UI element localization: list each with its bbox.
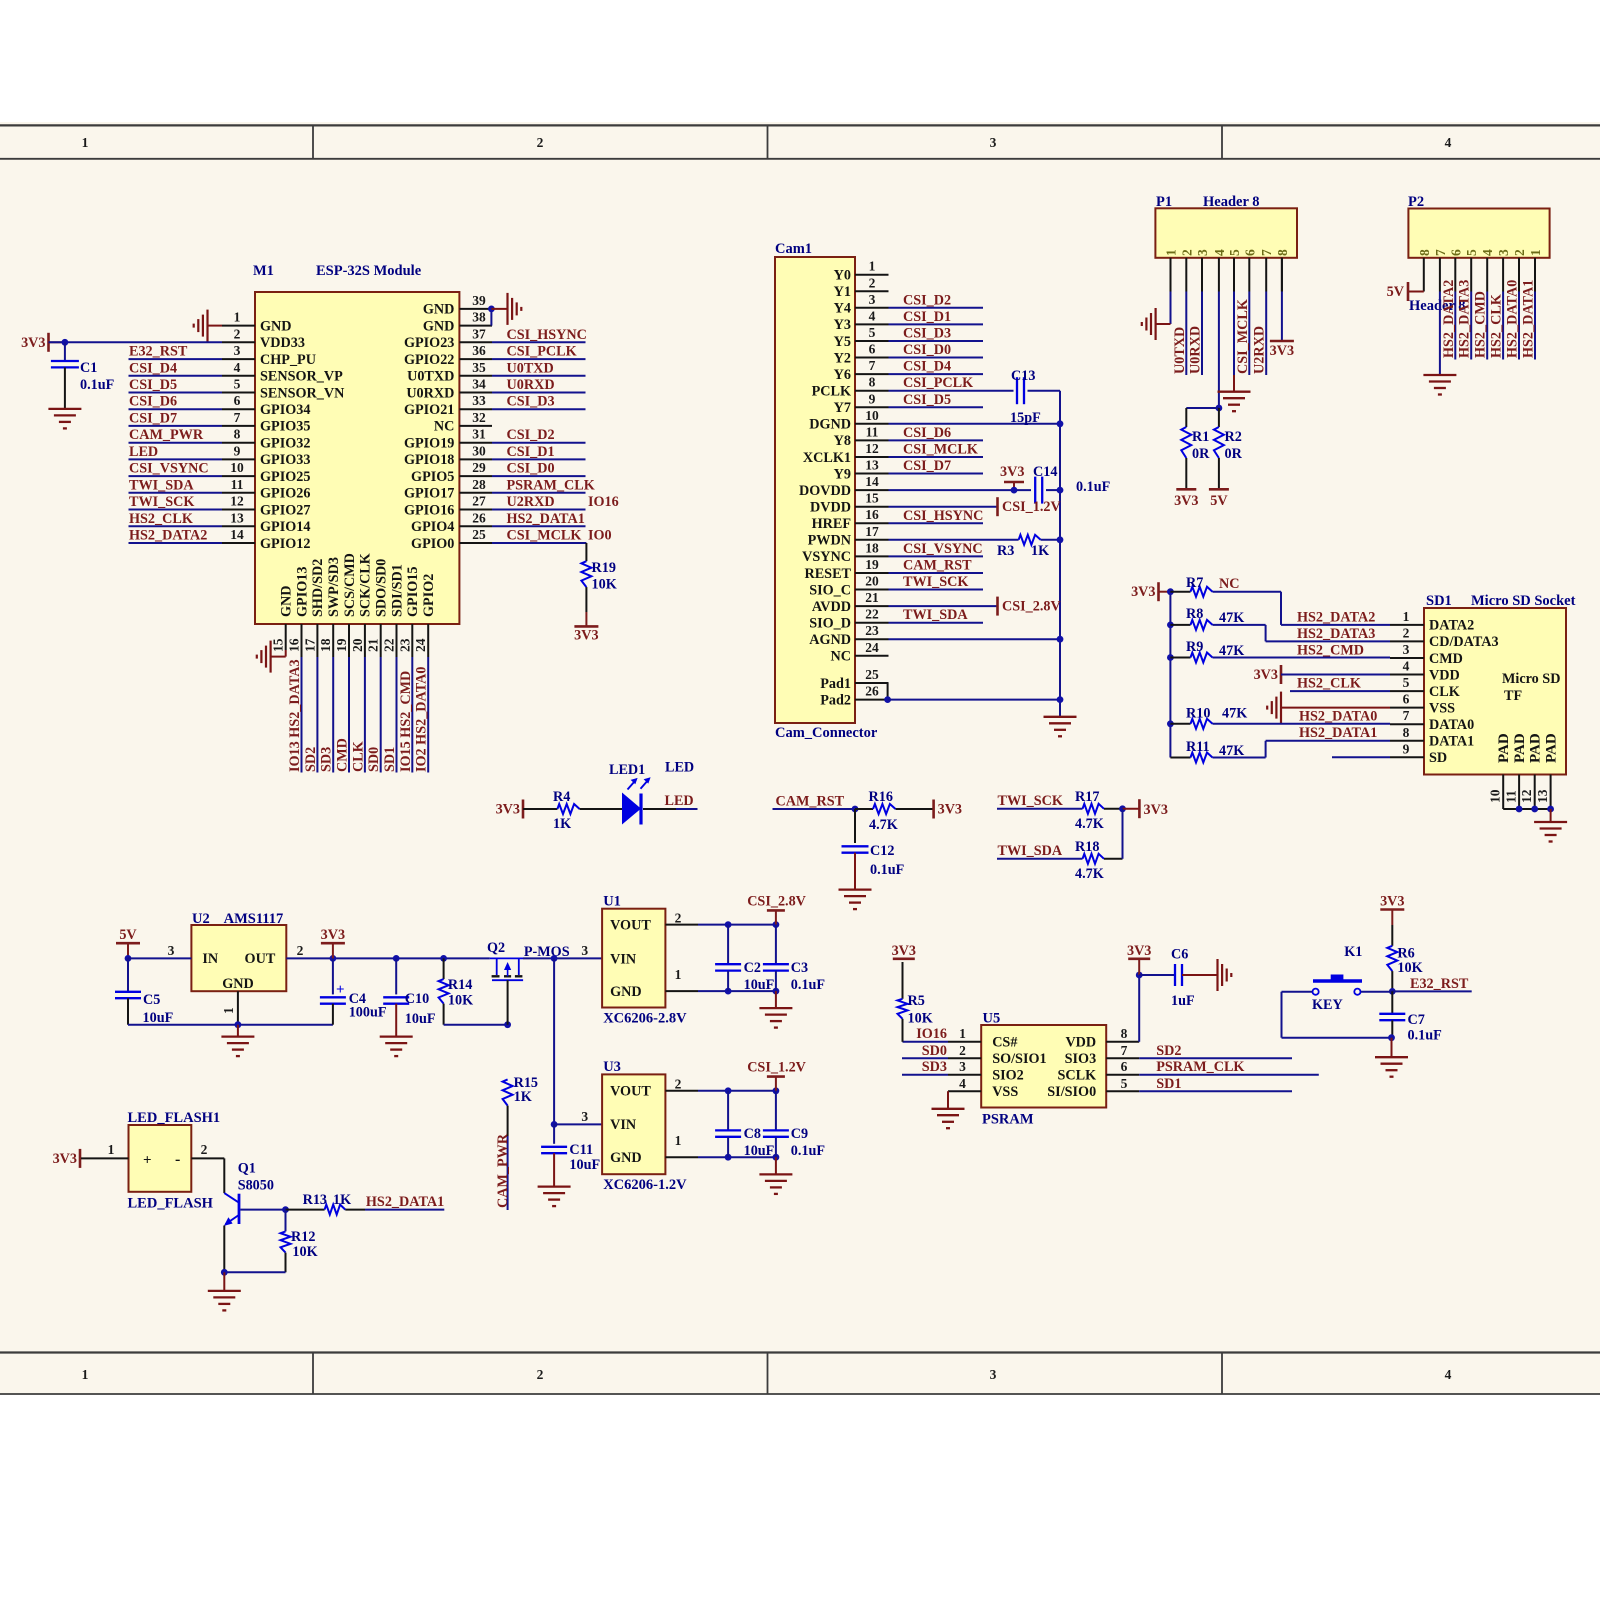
- Cam1 pin 18 VSYNC: [802, 540, 888, 565]
- capacitor C10 10uF: [383, 958, 435, 1036]
- svg-text:U0RXD: U0RXD: [1188, 326, 1204, 374]
- svg-text:CSI_D7: CSI_D7: [903, 458, 951, 474]
- svg-text:U0RXD: U0RXD: [507, 377, 555, 393]
- svg-text:SWP/SD3: SWP/SD3: [326, 557, 342, 617]
- LED_FLASH1 pin2 wire: [191, 1142, 224, 1158]
- svg-text:CSI_PCLK: CSI_PCLK: [903, 375, 973, 391]
- wire net HS2_CLK (M1 pin 13): [129, 511, 223, 527]
- svg-text:CSI_D0: CSI_D0: [903, 342, 951, 358]
- P1 pin1 ground symbol: [1142, 292, 1171, 341]
- Cam1 pin 17 PWDN: [808, 524, 889, 549]
- resistor R14 10K: [439, 958, 474, 1024]
- svg-text:SIO2: SIO2: [992, 1068, 1024, 1084]
- svg-text:9: 9: [234, 443, 241, 458]
- svg-text:4.7K: 4.7K: [1075, 866, 1104, 882]
- wire 3V3 to R4: [523, 808, 557, 810]
- svg-text:Y4: Y4: [834, 301, 851, 317]
- ground (C11): [538, 1187, 571, 1207]
- svg-text:CSI_D7: CSI_D7: [129, 410, 177, 426]
- SD1 pin 3 CMD: [1390, 642, 1463, 667]
- connector P1 Header 8 body: [1155, 194, 1297, 258]
- svg-text:SCLK: SCLK: [1058, 1068, 1097, 1084]
- junction AGND pin23: [889, 636, 1064, 643]
- U5 VSS ground: [932, 1091, 965, 1128]
- svg-text:100uF: 100uF: [349, 1005, 387, 1021]
- ground (Q1): [208, 1272, 241, 1310]
- svg-text:14: 14: [865, 474, 879, 489]
- svg-text:HS2_DATA1: HS2_DATA1: [366, 1194, 444, 1210]
- resistor R19 10K: [581, 560, 616, 612]
- wire net TWI_SCK: [997, 793, 1083, 809]
- svg-text:10uF: 10uF: [744, 977, 775, 993]
- resistor R13 1K: [286, 1192, 366, 1215]
- SD1 VSS ground symbol: [1267, 692, 1390, 724]
- connector Cam1 body: [775, 241, 878, 741]
- M1 pin 27 GPIO16: [404, 494, 492, 519]
- svg-text:10uF: 10uF: [143, 1010, 174, 1026]
- svg-text:PSRAM: PSRAM: [982, 1112, 1034, 1128]
- svg-text:3V3: 3V3: [938, 802, 962, 818]
- svg-text:R11: R11: [1186, 739, 1210, 755]
- svg-text:1: 1: [82, 135, 89, 150]
- svg-text:Cam1: Cam1: [775, 241, 812, 257]
- Cam1 pin 8 PCLK: [812, 375, 889, 400]
- ground (K1/C7): [1375, 1038, 1408, 1077]
- svg-text:HS2_DATA0: HS2_DATA0: [1505, 280, 1521, 358]
- svg-text:3: 3: [990, 1367, 997, 1382]
- svg-text:1: 1: [1164, 249, 1179, 256]
- M1 pins 39/38 ground connection: [488, 293, 521, 326]
- wire ground bus (Cam1 right): [1059, 391, 1061, 717]
- power 3V3 (C1): [21, 333, 63, 352]
- svg-text:23: 23: [397, 638, 412, 652]
- svg-text:CMD: CMD: [1429, 651, 1463, 667]
- svg-text:GPIO22: GPIO22: [404, 352, 454, 368]
- Cam1 pin 25 Pad1: [820, 667, 888, 692]
- wire net PSRAM_CLK (U5 pin 6): [1139, 1059, 1319, 1075]
- svg-text:7: 7: [1121, 1043, 1128, 1058]
- svg-text:8: 8: [869, 375, 876, 390]
- svg-text:E32_RST: E32_RST: [1410, 976, 1469, 992]
- svg-text:CSI_D0: CSI_D0: [507, 461, 555, 477]
- svg-text:3: 3: [959, 1059, 966, 1074]
- wire net U0RXD (M1 pin 34): [492, 377, 586, 393]
- wire net HS2_CLK (SD1 pin5): [1290, 676, 1390, 692]
- svg-text:HS2_DATA0: HS2_DATA0: [1299, 709, 1377, 725]
- svg-text:24: 24: [865, 640, 879, 655]
- svg-text:9: 9: [1403, 741, 1410, 756]
- svg-text:R2: R2: [1225, 429, 1242, 445]
- U5 pin 1: [948, 1026, 981, 1042]
- junction C1/3V3: [62, 339, 69, 346]
- power port CSI_1.2V (Cam1 pin15): [889, 497, 1062, 516]
- svg-text:R18: R18: [1075, 839, 1099, 855]
- svg-text:RESET: RESET: [804, 566, 851, 582]
- svg-text:Y8: Y8: [834, 433, 851, 449]
- svg-text:C2: C2: [744, 960, 761, 976]
- P2 pin 5: [1464, 249, 1479, 292]
- Cam1 pin 20 SIO_C: [809, 574, 888, 599]
- capacitor C7 0.1uF: [1379, 991, 1441, 1043]
- svg-text:26: 26: [865, 684, 879, 699]
- wire net CSI_D7 (Cam1 pin 13): [889, 458, 984, 474]
- net label HS2_CMD (SD1 pin3): [1297, 643, 1364, 659]
- svg-text:CSI_D2: CSI_D2: [903, 292, 951, 308]
- wire DOVDD (Cam1 pin 14): [889, 489, 1032, 491]
- wire net HS2_DATA0 (P2 pin 2): [1505, 280, 1521, 360]
- svg-text:2: 2: [537, 135, 544, 150]
- M1 pin 25 GPIO0: [411, 527, 492, 552]
- M1 pin 29 GPIO5: [411, 460, 492, 485]
- svg-text:0R: 0R: [1225, 446, 1243, 462]
- svg-text:3V3: 3V3: [1380, 894, 1404, 910]
- power 3V3 (R1): [1174, 489, 1198, 509]
- svg-text:31: 31: [472, 427, 486, 442]
- wire 3V3 pullup bus: [1167, 588, 1174, 757]
- svg-text:CSI_D2: CSI_D2: [507, 427, 555, 443]
- svg-text:GPIO2: GPIO2: [421, 574, 437, 617]
- svg-text:Micro SD: Micro SD: [1502, 671, 1560, 687]
- svg-text:18: 18: [318, 638, 333, 652]
- wire net TWI_SCK (M1 pin 12): [129, 494, 223, 510]
- wire net CAM_RST (Cam1 pin 19): [889, 558, 984, 574]
- M1 pin 22 SDI/SD1: [382, 564, 406, 657]
- transistor Q1 S8050: [224, 1158, 274, 1272]
- LED_FLASH1 body: [128, 1110, 221, 1212]
- svg-text:CSI_1.2V: CSI_1.2V: [1002, 499, 1061, 515]
- M1 pin 1 GND: [222, 310, 292, 335]
- svg-text:3: 3: [990, 135, 997, 150]
- svg-text:3: 3: [1403, 642, 1410, 657]
- svg-text:CS#: CS#: [992, 1035, 1017, 1051]
- power 3V3 (SD pullups): [1131, 582, 1170, 601]
- M1 pin 19 SCS/CMD: [334, 553, 358, 657]
- svg-text:HS2_DATA2: HS2_DATA2: [129, 528, 207, 544]
- transistor Q2 P-MOS: [487, 940, 570, 980]
- svg-text:1: 1: [959, 1026, 966, 1041]
- svg-text:VDD: VDD: [1429, 667, 1460, 683]
- svg-text:CSI_MCLK: CSI_MCLK: [1235, 299, 1251, 374]
- M1 pin 13 GPIO14: [222, 510, 310, 535]
- wire net SD2 (M1 pin 17): [303, 657, 319, 773]
- M1 pin 15 ground symbol: [257, 641, 286, 673]
- connector SD1 Micro SD Socket body: [1424, 593, 1576, 775]
- svg-text:PCLK: PCLK: [812, 384, 851, 400]
- Cam1 pin 2 Y1: [834, 275, 889, 300]
- resistor R11 47K: [1170, 739, 1265, 763]
- svg-text:5: 5: [1227, 249, 1242, 256]
- svg-text:Y6: Y6: [834, 367, 851, 383]
- svg-text:R13: R13: [303, 1192, 327, 1208]
- svg-text:1K: 1K: [333, 1192, 351, 1208]
- capacitor C2 10uF: [715, 925, 774, 993]
- svg-text:3: 3: [581, 943, 588, 958]
- M1 pin 6 GPIO34: [222, 393, 310, 418]
- svg-text:DATA0: DATA0: [1429, 717, 1474, 733]
- svg-text:CSI_D5: CSI_D5: [129, 377, 177, 393]
- svg-text:SD1: SD1: [1156, 1076, 1181, 1092]
- svg-text:10K: 10K: [908, 1011, 933, 1027]
- wire net IO16 (U5 pin 1): [903, 1026, 949, 1042]
- U5 pin 8: [1106, 1026, 1139, 1042]
- svg-text:1: 1: [1528, 249, 1543, 256]
- resistor R3 1K: [889, 535, 1064, 559]
- svg-text:SD3: SD3: [922, 1059, 947, 1075]
- resistor R4 1K: [553, 789, 623, 832]
- svg-text:1: 1: [675, 967, 682, 982]
- M1 pin 33 GPIO21: [404, 393, 492, 418]
- svg-text:3: 3: [234, 343, 241, 358]
- wire SD1 pad ground bus: [1503, 806, 1554, 813]
- svg-text:15: 15: [865, 491, 879, 506]
- svg-text:AGND: AGND: [809, 632, 851, 648]
- svg-text:PSRAM_CLK: PSRAM_CLK: [507, 477, 595, 493]
- svg-text:Y5: Y5: [834, 334, 851, 350]
- Cam1 pin 5 Y5: [834, 325, 889, 350]
- Cam1 pin 1 Y0: [834, 259, 889, 284]
- P2 pin 2: [1512, 249, 1527, 292]
- svg-text:GPIO34: GPIO34: [260, 402, 310, 418]
- wire Pad1-Pad2 to ground bus: [884, 683, 1060, 703]
- svg-text:7: 7: [1259, 249, 1274, 256]
- svg-text:SDO/SD0: SDO/SD0: [374, 559, 390, 617]
- connector P2 Header 8 body: [1408, 194, 1550, 314]
- wire K1 left to C7 bottom: [1282, 992, 1392, 1038]
- wire P-MOS node down to U3 VIN: [551, 958, 602, 1127]
- svg-text:20: 20: [865, 574, 879, 589]
- svg-text:16: 16: [865, 507, 879, 522]
- svg-text:SENSOR_VN: SENSOR_VN: [260, 385, 345, 401]
- svg-text:5: 5: [1121, 1076, 1128, 1091]
- power 3V3 (U5 VDD): [1127, 943, 1151, 1042]
- svg-text:2: 2: [201, 1142, 208, 1157]
- wire net CMD (M1 pin 19): [335, 657, 351, 773]
- svg-text:CMD: CMD: [335, 738, 351, 772]
- svg-text:15: 15: [271, 638, 286, 652]
- svg-text:C11: C11: [569, 1142, 593, 1158]
- svg-text:GPIO35: GPIO35: [260, 419, 310, 435]
- ground (U2): [221, 1025, 254, 1056]
- svg-text:10K: 10K: [448, 993, 473, 1009]
- regulator U3 XC6206-1.2V body: [602, 1059, 687, 1193]
- svg-text:19: 19: [334, 638, 349, 652]
- capacitor C6 1uF: [1139, 947, 1217, 1010]
- svg-text:21: 21: [865, 590, 879, 605]
- M1 pin 38 GND: [423, 310, 492, 335]
- capacitor C13 15pF: [983, 368, 1060, 426]
- svg-text:CSI_D1: CSI_D1: [903, 309, 951, 325]
- svg-text:7: 7: [234, 410, 241, 425]
- svg-text:2: 2: [1512, 249, 1527, 256]
- wire net CLK (M1 pin 20): [350, 657, 366, 773]
- svg-text:CAM_RST: CAM_RST: [903, 558, 972, 574]
- svg-text:GPIO16: GPIO16: [404, 502, 454, 518]
- svg-text:13: 13: [1535, 789, 1550, 803]
- svg-text:GPIO23: GPIO23: [404, 335, 454, 351]
- svg-text:3V3: 3V3: [574, 628, 598, 644]
- wire net CSI_D6 (Cam1 pin 11): [889, 425, 984, 441]
- Cam1 pin 10 DGND: [809, 408, 888, 433]
- svg-text:LED_FLASH1: LED_FLASH1: [128, 1110, 221, 1126]
- svg-text:U0TXD: U0TXD: [507, 360, 554, 376]
- svg-text:R9: R9: [1186, 639, 1203, 655]
- svg-text:CSI_2.8V: CSI_2.8V: [747, 894, 806, 910]
- ground (C1): [48, 409, 81, 429]
- svg-text:3V3: 3V3: [321, 927, 345, 943]
- svg-text:1: 1: [108, 1142, 115, 1157]
- resistor R5 10K: [898, 962, 933, 1042]
- resistor R17 4.7K: [1075, 789, 1123, 832]
- svg-text:SD1: SD1: [1426, 593, 1452, 609]
- P1 pin 8: [1275, 249, 1290, 292]
- svg-text:1: 1: [1403, 609, 1410, 624]
- svg-text:ESP-32S Module: ESP-32S Module: [316, 263, 422, 279]
- svg-text:1K: 1K: [1031, 543, 1049, 559]
- svg-text:0.1uF: 0.1uF: [791, 977, 825, 993]
- M1 pin 15 GND: [271, 585, 295, 652]
- svg-text:VDD33: VDD33: [260, 335, 305, 351]
- svg-text:1K: 1K: [553, 816, 571, 832]
- wire net SD0 (U5 pin 2): [902, 1043, 948, 1059]
- svg-text:GPIO4: GPIO4: [411, 519, 454, 535]
- U1 GND pin1 wire: [665, 967, 779, 994]
- SD1 pin 8 DATA1: [1390, 725, 1474, 750]
- svg-text:IO13 HS2_DATA3: IO13 HS2_DATA3: [287, 659, 303, 772]
- wire net HS2_DATA2 (P2 pin 6): [1441, 280, 1457, 360]
- svg-text:CSI_VSYNC: CSI_VSYNC: [129, 461, 209, 477]
- svg-text:OUT: OUT: [245, 951, 276, 967]
- svg-text:20: 20: [350, 638, 365, 652]
- svg-text:U1: U1: [603, 894, 621, 910]
- ground (SD1 pads): [1534, 809, 1567, 842]
- svg-text:C12: C12: [870, 843, 894, 859]
- wire net HS2_CLK (P2 pin 3): [1489, 292, 1505, 360]
- M1 pin 31 GPIO19: [404, 427, 492, 452]
- wire net U2RXD (M1 pin 27): [492, 494, 586, 510]
- svg-text:17: 17: [302, 638, 317, 652]
- svg-text:2: 2: [297, 943, 304, 958]
- svg-text:SCS/CMD: SCS/CMD: [342, 553, 358, 617]
- svg-text:3V3: 3V3: [1000, 464, 1024, 480]
- svg-text:21: 21: [366, 638, 381, 652]
- junction DGND pin10: [889, 420, 1064, 427]
- svg-text:3: 3: [1496, 249, 1511, 256]
- M1 pin 37 GPIO23: [404, 326, 492, 351]
- power port CSI_2.8V (Cam1 pin21): [889, 597, 1062, 616]
- M1 pin 28 GPIO17: [404, 477, 492, 502]
- svg-text:47K: 47K: [1219, 610, 1244, 626]
- svg-text:Micro SD Socket: Micro SD Socket: [1471, 593, 1576, 609]
- svg-text:HS2_CLK: HS2_CLK: [1489, 294, 1505, 358]
- svg-text:R19: R19: [592, 560, 616, 576]
- svg-text:GPIO14: GPIO14: [260, 519, 310, 535]
- svg-text:4: 4: [959, 1076, 966, 1091]
- svg-text:CSI_HSYNC: CSI_HSYNC: [507, 327, 587, 343]
- power 3V3 (U2 out): [321, 927, 345, 958]
- svg-text:3: 3: [869, 292, 876, 307]
- M1 pin 11 GPIO26: [222, 477, 310, 502]
- power 5V (P2 pin8): [1387, 282, 1424, 301]
- svg-text:CSI_MCLK: CSI_MCLK: [903, 442, 978, 458]
- svg-text:7: 7: [1403, 708, 1410, 723]
- wire net PSRAM_CLK (M1 pin 28): [492, 477, 595, 493]
- svg-text:Pad1: Pad1: [820, 676, 851, 692]
- svg-text:GPIO0: GPIO0: [411, 536, 454, 552]
- resistor R12 10K: [281, 1210, 318, 1273]
- svg-text:HS2_DATA3: HS2_DATA3: [1457, 280, 1473, 358]
- svg-text:Y2: Y2: [834, 350, 851, 366]
- M1 pin 26 GPIO4: [411, 510, 492, 535]
- wire net HS2_DATA2 (SD1 pin1): [1281, 609, 1390, 625]
- svg-text:U2RXD: U2RXD: [1252, 326, 1268, 374]
- svg-text:HS2_CMD: HS2_CMD: [1473, 291, 1489, 358]
- svg-text:26: 26: [472, 510, 486, 525]
- svg-text:HS2_CLK: HS2_CLK: [129, 511, 193, 527]
- svg-text:15pF: 15pF: [1010, 410, 1041, 426]
- resistor R2 0R: [1214, 408, 1243, 489]
- svg-text:1: 1: [234, 310, 241, 325]
- svg-text:4: 4: [234, 360, 241, 375]
- svg-text:CSI_D4: CSI_D4: [903, 359, 951, 375]
- svg-text:SI/SIO0: SI/SIO0: [1047, 1084, 1096, 1100]
- LED_FLASH1 pin1 wire: [81, 1142, 129, 1158]
- wire net SD1 (U5 pin 5): [1139, 1076, 1292, 1092]
- M1 pin 10 GPIO25: [222, 460, 310, 485]
- svg-text:3V3: 3V3: [892, 943, 916, 959]
- svg-text:GPIO13: GPIO13: [294, 567, 310, 617]
- svg-text:47K: 47K: [1222, 706, 1247, 722]
- svg-text:TWI_SCK: TWI_SCK: [903, 574, 968, 590]
- svg-text:11: 11: [1504, 790, 1519, 803]
- svg-text:SD3: SD3: [319, 747, 335, 772]
- wire net SD0 (M1 pin 21): [366, 657, 382, 773]
- Cam1 pin 19 RESET: [804, 557, 888, 582]
- svg-text:1: 1: [82, 1367, 89, 1382]
- svg-text:DATA1: DATA1: [1429, 734, 1474, 750]
- svg-text:XCLK1: XCLK1: [803, 450, 851, 466]
- svg-text:36: 36: [472, 343, 486, 358]
- svg-text:CSI_HSYNC: CSI_HSYNC: [903, 508, 983, 524]
- svg-text:18: 18: [865, 540, 879, 555]
- Cam1 pin 6 Y2: [834, 342, 889, 367]
- svg-text:IO16: IO16: [588, 494, 619, 510]
- svg-text:VIN: VIN: [610, 1117, 637, 1133]
- svg-text:10: 10: [230, 460, 244, 475]
- svg-text:GPIO17: GPIO17: [404, 486, 454, 502]
- svg-text:IO16: IO16: [916, 1026, 947, 1042]
- net label IO0 (M1 pin 25): [588, 528, 612, 544]
- wire net CSI_D4 (M1 pin 4): [129, 360, 223, 376]
- svg-text:CSI_D1: CSI_D1: [507, 444, 555, 460]
- svg-text:10uF: 10uF: [405, 1011, 436, 1027]
- svg-text:U2: U2: [192, 911, 210, 927]
- net label HS2_DATA0 (SD1 pin7): [1299, 709, 1377, 725]
- wire net CSI_VSYNC (Cam1 pin 18): [889, 541, 984, 557]
- svg-text:GND: GND: [423, 302, 455, 318]
- svg-text:4: 4: [1445, 135, 1452, 150]
- svg-text:0.1uF: 0.1uF: [1408, 1028, 1442, 1044]
- P1 pin 7: [1259, 249, 1274, 292]
- svg-text:GPIO26: GPIO26: [260, 486, 310, 502]
- svg-text:SD2: SD2: [303, 747, 319, 772]
- svg-text:7: 7: [869, 358, 876, 373]
- M1 pin 36 GPIO22: [404, 343, 492, 368]
- U5 pin 4: [948, 1076, 981, 1091]
- svg-text:30: 30: [472, 443, 486, 458]
- M1 pin 3 CHP_PU: [222, 343, 316, 368]
- svg-text:NC: NC: [831, 649, 852, 665]
- svg-text:SD0: SD0: [922, 1043, 947, 1059]
